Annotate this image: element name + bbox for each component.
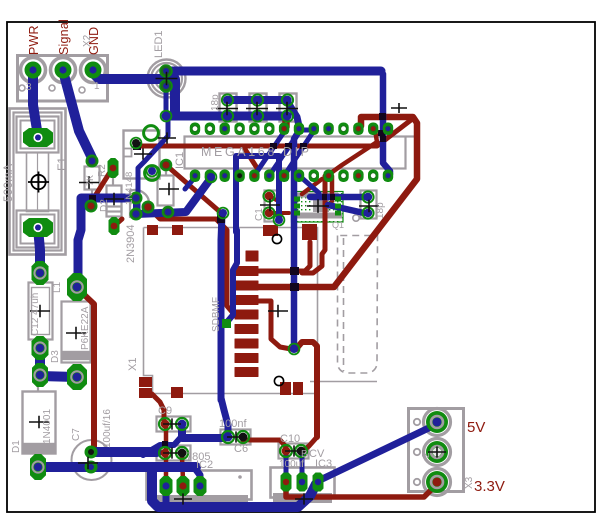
inductor L1 body xyxy=(29,283,53,340)
wire blue branch IC2 pad3 xyxy=(194,467,200,483)
X1 smd pad TR2 xyxy=(302,224,317,240)
capacitor C6 pad 2 xyxy=(237,431,249,443)
svg-text:IC2: IC2 xyxy=(196,459,213,471)
wire blue L1 to D1 xyxy=(35,350,45,374)
svg-text:X3: X3 xyxy=(464,476,475,489)
capacitor C18 outline xyxy=(361,191,377,219)
diode D1 body xyxy=(23,392,56,454)
wire blue up diagonal xyxy=(138,120,168,212)
component C2 box xyxy=(124,131,160,179)
regulator IC2 outline xyxy=(147,471,252,500)
svg-text:IC3: IC3 xyxy=(315,458,332,470)
via B xyxy=(274,215,285,226)
svg-text:MEGA168 DIP: MEGA168 DIP xyxy=(201,145,312,159)
X2 pads xyxy=(25,62,42,79)
svg-text:2N3904: 2N3904 xyxy=(125,224,137,263)
svg-text:R2: R2 xyxy=(97,164,108,177)
connector X3 outline xyxy=(409,409,464,492)
X1 antenna dashed outline xyxy=(338,236,378,374)
wire red ladder pad2 to square xyxy=(256,242,310,271)
capacitor C10 pad 2 xyxy=(295,445,307,457)
diode D2 pad top xyxy=(108,158,119,178)
capacitor C3 pads xyxy=(222,94,233,105)
regulator IC3 pads xyxy=(281,473,292,492)
capacitor C6 outline xyxy=(221,430,251,445)
svg-text:f: f xyxy=(301,459,304,470)
LED1 pad anode xyxy=(160,65,172,77)
via A xyxy=(206,172,217,183)
wire red Q1 net xyxy=(148,207,240,316)
wire blue LED pad stub xyxy=(164,85,169,114)
wire blue Q2 pads link xyxy=(133,198,139,214)
wire blue fuse to L1 xyxy=(38,228,40,271)
wire blue pad1 stub xyxy=(185,176,196,189)
capacitor C8 pad 1 xyxy=(159,447,171,459)
LED1 pad cathode xyxy=(160,80,172,92)
capacitor C4 outline xyxy=(250,94,267,122)
capacitor C4 pads xyxy=(252,94,263,105)
wire blue caps top row xyxy=(227,96,286,104)
wire net VCC top red xyxy=(258,117,417,287)
resistor R2 pad top xyxy=(86,155,97,166)
diode D3 pad bottom xyxy=(67,364,87,390)
via H xyxy=(147,166,158,177)
capacitor C7 pad neg xyxy=(85,461,98,474)
capacitor C10 outline xyxy=(279,444,309,459)
via F xyxy=(218,208,229,219)
IC1 DIP top pad row xyxy=(190,123,200,136)
wire blue D1 row to D3 xyxy=(40,376,76,377)
svg-text:D2: D2 xyxy=(99,199,110,212)
X1 smd pad BR1 xyxy=(280,382,291,395)
resistor R2 body xyxy=(85,167,100,190)
X1 smd pad BL3 xyxy=(171,387,183,398)
wire red D2 branch xyxy=(114,219,122,226)
IC1 socket outline xyxy=(185,137,406,169)
wire red branch C10 xyxy=(304,430,317,450)
X1 smd pad TL1 xyxy=(147,225,158,235)
wire red R1 diagonal xyxy=(166,165,219,211)
fuse F1 crosshair xyxy=(28,172,49,193)
svg-text:1N4001: 1N4001 xyxy=(42,409,53,444)
restrict ring B xyxy=(145,166,160,181)
inductor L1 pad bottom xyxy=(32,336,49,360)
wire blue via row to pad10 xyxy=(166,112,287,121)
capacitor C7 circle xyxy=(72,440,112,480)
connector X3 pads xyxy=(426,411,448,433)
wire blue ICSP diagonals xyxy=(254,132,284,176)
wire blue X2 pad1 to mid xyxy=(93,73,175,113)
drill hole B xyxy=(274,376,283,385)
X1 smd pad TL2 xyxy=(172,225,183,235)
svg-text:IC1: IC1 xyxy=(174,152,186,169)
fuse F1 outline xyxy=(10,109,66,255)
X1 module outline xyxy=(144,228,318,394)
wire blue C6 entry xyxy=(218,398,225,400)
wire red square to C9 xyxy=(152,394,164,422)
drill hole A xyxy=(272,234,281,243)
wire blue IC3 to X3 xyxy=(318,424,437,481)
capacitor C1 pads xyxy=(263,190,274,201)
svg-text:5V: 5V xyxy=(467,419,485,436)
wire red cap stubs xyxy=(284,120,288,127)
X3 pad rings xyxy=(424,409,451,436)
X1 smd pad BL2 xyxy=(139,388,152,398)
svg-text:LED1: LED1 xyxy=(153,30,165,58)
wire blue D1 long bottom xyxy=(38,462,196,472)
svg-text:F1: F1 xyxy=(55,157,69,171)
LED1 circles xyxy=(148,60,186,98)
wire blue LED to DIP right xyxy=(166,67,381,76)
diode D3 pad top xyxy=(67,273,87,301)
pad smd K xyxy=(222,319,231,328)
svg-text:D3: D3 xyxy=(50,350,61,363)
wire blue Pi left continues xyxy=(227,230,237,322)
svg-text:C12 47uh: C12 47uh xyxy=(30,293,41,336)
restrict ring A xyxy=(144,126,159,141)
transistor Q2 pad 2 xyxy=(142,201,153,212)
diode D2 pad bottom xyxy=(109,217,120,235)
wire blue IC2 stub xyxy=(163,488,170,507)
connector X2 outline xyxy=(18,56,108,102)
wire blue V3 vertical xyxy=(294,131,299,348)
svg-text:Signal: Signal xyxy=(57,19,71,55)
regulator IC3 outline xyxy=(271,468,335,498)
IC1 DIP bottom pad row xyxy=(190,170,200,183)
svg-text:C6: C6 xyxy=(234,443,248,455)
svg-text:C1: C1 xyxy=(254,208,265,221)
resistor R2 pad bottom xyxy=(85,200,96,211)
X1 smd pad ladder xyxy=(246,251,258,261)
capacitor C18 pads xyxy=(362,191,373,202)
pad node D1 top xyxy=(32,363,48,387)
connector X2 pad rings xyxy=(21,58,46,83)
wire blue down to bottom run xyxy=(152,467,316,507)
diode D2 body xyxy=(107,186,122,217)
wire blue C10 to IC3 xyxy=(286,453,302,479)
svg-text:3.3V: 3.3V xyxy=(474,478,505,495)
svg-text:100uf/16: 100uf/16 xyxy=(102,409,113,448)
capacitor C5 pads xyxy=(282,94,293,105)
junction darks xyxy=(133,142,141,150)
svg-text:100nf: 100nf xyxy=(219,418,247,430)
wire red diagonal to pad14 xyxy=(328,130,377,175)
via D xyxy=(161,111,172,122)
svg-text:1N4148: 1N4148 xyxy=(124,172,135,205)
resistor R1 pad bottom xyxy=(163,207,174,218)
via E xyxy=(131,138,142,149)
wire blue C9 to C6 row xyxy=(182,428,224,438)
transistor Q2 pad 1 xyxy=(130,192,141,203)
resistor R1 body xyxy=(158,176,174,206)
wire red horizontal row xyxy=(137,120,411,146)
svg-text:SDBMF: SDBMF xyxy=(211,297,222,332)
fuse F1 pad bottom xyxy=(23,218,53,237)
capacitor C10 pad 1 xyxy=(280,445,292,457)
svg-text:Q1: Q1 xyxy=(332,220,344,230)
capacitor C6 pad 1 xyxy=(222,431,234,443)
IC Q1 smd pads xyxy=(294,197,300,202)
wire red C6 to C10 xyxy=(243,440,286,447)
transistor Q2 TO-92 xyxy=(130,190,149,218)
capacitor C9 outline xyxy=(157,417,191,432)
capacitor C5 outline xyxy=(280,94,297,122)
X1 smd pad BL1 xyxy=(139,377,152,387)
transistor Q2 pad 3 xyxy=(130,208,141,219)
wire red D3 down to C7 xyxy=(77,288,94,450)
regulator IC2 pads xyxy=(160,476,173,496)
wire red ladder pad4 to via xyxy=(256,301,291,349)
svg-text:L1: L1 xyxy=(52,281,63,293)
pad center crosses xyxy=(156,72,178,86)
diode D1 pad bottom xyxy=(30,454,46,480)
X1 smd pad TR1 xyxy=(263,225,278,236)
capacitor C8 pad 2 xyxy=(176,447,188,459)
capacitor C7 pad pos xyxy=(85,446,98,459)
wire blue X2 pad3 to fuse xyxy=(33,71,38,137)
svg-text:7K: 7K xyxy=(85,175,95,186)
wire blue to C9 xyxy=(143,427,182,455)
svg-text:C10: C10 xyxy=(280,433,300,445)
wire red R2 to D2 xyxy=(90,169,112,204)
svg-text:D1: D1 xyxy=(11,440,22,453)
svg-text:X2: X2 xyxy=(82,34,93,47)
svg-text:X1: X1 xyxy=(127,358,139,371)
wire blue GND vertical to D3 xyxy=(78,198,130,285)
capacitor C9 pad 1 xyxy=(159,418,171,430)
resistor R1 pad top xyxy=(161,160,172,171)
svg-text:18p: 18p xyxy=(210,94,221,111)
wire blue Pi shape xyxy=(236,156,279,232)
capacitor C9 pad 2 xyxy=(176,418,188,430)
diode D3 body xyxy=(62,302,91,363)
wire red branch to pin xyxy=(243,146,257,168)
wire red C9 to C8 xyxy=(164,428,169,480)
X2 pin marker circles xyxy=(19,85,25,91)
svg-text:C7: C7 xyxy=(71,428,82,441)
wire blue C7 to C8 xyxy=(91,447,157,457)
wire red via to X3 xyxy=(296,342,317,437)
wire blue X2 pad2 to R2 xyxy=(63,71,92,158)
capacitor C1 outline xyxy=(265,191,281,222)
svg-text:PWR: PWR xyxy=(27,25,41,55)
wire blue mid horizontal xyxy=(136,178,211,214)
wire red Q1 area verticals xyxy=(302,176,325,273)
svg-text:500mA: 500mA xyxy=(3,164,15,202)
inductor L1 pad top xyxy=(32,261,49,285)
svg-text:P6KE22A: P6KE22A xyxy=(80,306,91,350)
wire blue Q1 thick xyxy=(310,194,365,201)
svg-text:C9: C9 xyxy=(158,405,172,417)
svg-text:18p: 18p xyxy=(375,202,386,219)
capacitor C8 outline xyxy=(157,446,191,461)
wire blue long SDBMF vertical xyxy=(221,215,228,436)
X1 smd pad BR2 xyxy=(293,382,303,395)
fuse F1 pad top xyxy=(23,128,53,147)
svg-text:3: 3 xyxy=(26,82,32,93)
svg-text:2: 2 xyxy=(421,452,432,458)
svg-text:1: 1 xyxy=(94,81,100,92)
wire red C1 stubs xyxy=(269,196,289,213)
via C xyxy=(289,344,300,355)
capacitor C3 outline xyxy=(220,94,237,122)
wire red C8 to IC2 xyxy=(182,457,183,480)
IC Q1 smd footprint xyxy=(292,192,344,223)
